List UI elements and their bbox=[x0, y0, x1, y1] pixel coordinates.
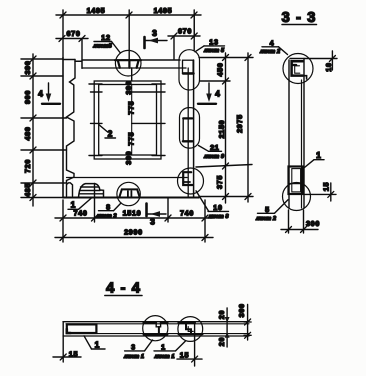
dim text 720 (rotated) bbox=[23, 159, 32, 173]
section 4-4 circle B bbox=[178, 317, 203, 342]
dim text 480 (rotated) bbox=[23, 126, 32, 140]
detail 8 pad with notch bbox=[119, 189, 139, 197]
extension below circle B bbox=[194, 323, 196, 366]
svg-text:300: 300 bbox=[306, 219, 320, 228]
section 3-3 top surface line bbox=[290, 58, 337, 60]
right chain extension lines bbox=[196, 58, 253, 197]
svg-text:3: 3 bbox=[152, 28, 157, 38]
section 3-3 bottom member bbox=[289, 167, 303, 195]
detail in circle A (T-slot) bbox=[144, 322, 168, 324]
opening tick line upper bbox=[132, 91, 165, 93]
svg-text:4: 4 bbox=[215, 89, 220, 99]
right total dim line 2975 bbox=[247, 53, 249, 202]
section mark 4 left bbox=[38, 83, 60, 104]
extension line left top bbox=[62, 10, 64, 58]
extension line right top bbox=[193, 10, 195, 50]
detail circle 8 (bottom middle) bbox=[117, 182, 140, 205]
svg-text:1510: 1510 bbox=[123, 209, 142, 218]
left chain slash ticks bbox=[30, 56, 36, 201]
section 4-4 wall band lines bbox=[63, 321, 249, 323]
section 3-3 wall right double line bbox=[301, 80, 303, 208]
panel bottom edge baseline bbox=[63, 197, 199, 199]
callout 4/лист 2 bbox=[259, 38, 287, 55]
detail oval 21 (middle right) bbox=[180, 108, 200, 149]
opening right edge tick marks bbox=[152, 84, 165, 156]
panel top-left corner block bbox=[63, 60, 82, 69]
svg-text:1: 1 bbox=[316, 150, 321, 160]
left edge bottom bump bbox=[67, 183, 73, 196]
svg-text:3 - 3: 3 - 3 bbox=[281, 9, 316, 26]
left 670 dim line bbox=[56, 38, 88, 40]
right chain slash ticks bbox=[223, 55, 252, 200]
svg-text:лист5: лист5 bbox=[92, 44, 112, 50]
section 3-3 wall left line bbox=[288, 60, 290, 208]
svg-text:300: 300 bbox=[124, 151, 133, 165]
svg-text:740: 740 bbox=[180, 209, 194, 218]
section mark 3 top bbox=[145, 28, 168, 48]
svg-text:300: 300 bbox=[237, 303, 246, 317]
svg-text:375: 375 bbox=[215, 175, 224, 189]
callout 21/лист 9 bbox=[199, 143, 225, 160]
svg-text:300: 300 bbox=[124, 81, 133, 95]
dim text 390 (rotated) bbox=[23, 60, 32, 74]
dim 15 right (section 4-4) bbox=[177, 358, 202, 360]
dim 15 (section 3-3) bbox=[304, 193, 336, 195]
svg-text:лист 2: лист 2 bbox=[259, 49, 281, 55]
detail 10 bracket bbox=[183, 172, 192, 185]
panel right rail inner line bbox=[187, 68, 189, 198]
panel right rail outer line bbox=[193, 60, 195, 198]
svg-text:5: 5 bbox=[265, 205, 270, 214]
dim 15 left (section 4-4) bbox=[62, 336, 64, 362]
section 3-3 bottom detail circle bbox=[283, 183, 311, 211]
svg-text:4 - 4: 4 - 4 bbox=[106, 280, 141, 297]
section 3-3 top detail circle bbox=[283, 54, 313, 84]
svg-text:4: 4 bbox=[38, 89, 43, 99]
dim text 900 (rotated) bbox=[23, 90, 32, 104]
callout 12/лист5 bbox=[92, 33, 120, 53]
callout 1/лист 1 bbox=[154, 341, 186, 360]
section 3-3 top channel detail bbox=[292, 61, 307, 79]
dim text 375 (rotated) bbox=[215, 175, 224, 189]
callout 13/лист 5 bbox=[195, 37, 225, 54]
detail in circle B (corner joint) bbox=[179, 322, 195, 324]
section 4-4 left end bbox=[62, 322, 64, 336]
svg-text:670: 670 bbox=[66, 29, 80, 38]
dim text 2150 (rotated) bbox=[217, 120, 226, 139]
svg-text:2: 2 bbox=[108, 129, 113, 139]
extension line mid top bbox=[128, 10, 130, 60]
svg-text:740: 740 bbox=[73, 209, 87, 218]
svg-text:2975: 2975 bbox=[235, 114, 244, 133]
opening dim 300 top (rotated) bbox=[124, 81, 133, 95]
dim text 485 (rotated) bbox=[23, 183, 32, 197]
svg-text:лист 1: лист 1 bbox=[154, 354, 175, 360]
panel left edge outer line bbox=[62, 58, 64, 198]
svg-text:2150: 2150 bbox=[217, 120, 226, 139]
svg-text:485: 485 bbox=[23, 183, 32, 197]
svg-text:15: 15 bbox=[69, 350, 78, 359]
callout 3/лист 1 bbox=[123, 340, 152, 360]
svg-text:775: 775 bbox=[126, 101, 135, 115]
detail 13 corner insert bbox=[183, 60, 194, 73]
svg-text:390: 390 bbox=[23, 60, 32, 74]
bottom extensions bbox=[63, 184, 205, 243]
svg-text:лист 8: лист 8 bbox=[208, 214, 230, 220]
svg-text:670: 670 bbox=[178, 27, 192, 36]
svg-text:13: 13 bbox=[209, 37, 218, 46]
svg-text:1495: 1495 bbox=[87, 6, 106, 15]
svg-text:20: 20 bbox=[217, 310, 226, 319]
svg-text:900: 900 bbox=[23, 90, 32, 104]
svg-text:1: 1 bbox=[95, 340, 100, 350]
opening tick line lower bbox=[132, 122, 165, 124]
svg-text:450: 450 bbox=[215, 62, 224, 76]
svg-text:лист 5: лист 5 bbox=[203, 48, 225, 54]
opening left edge tick marks bbox=[89, 84, 102, 156]
dim 300 (section 3-3 bottom) bbox=[289, 210, 304, 233]
bottom total dim line 2990 bbox=[55, 237, 213, 239]
opening dim 775 lower (rotated) bbox=[126, 132, 135, 146]
svg-text:15: 15 bbox=[180, 351, 189, 360]
right dim chain line 450/2150/375 bbox=[225, 53, 227, 203]
section 4-4 circle A bbox=[143, 316, 168, 341]
top dim line 1495+1495 bbox=[56, 14, 201, 16]
panel bottom rail inner line bbox=[67, 177, 188, 179]
opening inner rectangle double outline bbox=[94, 81, 161, 159]
opening dim 775 upper (rotated) bbox=[126, 101, 135, 115]
bottom dim line 740/1510/740 bbox=[55, 217, 213, 219]
detail circle 12 (top middle) bbox=[115, 50, 141, 76]
detail 12 anchor shape bbox=[115, 60, 141, 68]
svg-text:12: 12 bbox=[101, 33, 110, 42]
svg-text:2990: 2990 bbox=[124, 228, 143, 237]
svg-text:775: 775 bbox=[126, 132, 135, 146]
left dim chain line bbox=[32, 54, 34, 206]
svg-text:20: 20 bbox=[217, 337, 226, 346]
detail oval 13 (top right corner) bbox=[179, 50, 200, 90]
dim text 2975 (rotated) bbox=[235, 114, 244, 133]
section mark 3 bottom bbox=[147, 204, 167, 227]
detail circle 10 (bottom right) bbox=[178, 168, 204, 194]
panel left edge rib profile with bumps bbox=[67, 60, 76, 184]
label 1 (plan) leader bbox=[79, 198, 93, 210]
dim text 450 (rotated) bbox=[215, 62, 224, 76]
svg-text:3: 3 bbox=[131, 342, 136, 351]
callout 10/лист 8 bbox=[196, 191, 229, 220]
section mark 4 right bbox=[198, 83, 220, 104]
detail 21 insert bbox=[182, 118, 184, 141]
svg-text:лист 3: лист 3 bbox=[96, 213, 118, 219]
svg-text:лист 9: лист 9 bbox=[203, 154, 225, 160]
svg-text:лист 1: лист 1 bbox=[123, 354, 144, 360]
left chain extension lines bbox=[21, 59, 67, 198]
dim 20/20 line (section 4-4) bbox=[226, 308, 228, 347]
svg-text:1495: 1495 bbox=[154, 6, 173, 15]
svg-text:480: 480 bbox=[23, 126, 32, 140]
panel top edge outer line bbox=[82, 59, 180, 61]
callout 8/лист 3 bbox=[96, 203, 121, 220]
dome stripes bbox=[79, 187, 103, 194]
dim 10 (section 3-3 top) bbox=[331, 51, 333, 70]
svg-text:10: 10 bbox=[324, 62, 333, 71]
label 2 leader bbox=[99, 125, 107, 132]
opening dim 300 bottom (rotated) bbox=[124, 151, 133, 165]
svg-text:1: 1 bbox=[161, 342, 166, 351]
opening centre line bbox=[131, 85, 133, 156]
callout 5/лист 2 bbox=[255, 200, 288, 222]
svg-text:720: 720 bbox=[23, 159, 32, 173]
bottom-left dome feature bbox=[79, 184, 104, 198]
right 670 dim line bbox=[168, 35, 200, 37]
svg-text:15: 15 bbox=[321, 182, 330, 191]
svg-text:лист 2: лист 2 bbox=[255, 216, 277, 222]
panel top edge inner line bbox=[82, 67, 186, 69]
svg-text:10: 10 bbox=[213, 203, 222, 212]
section 4-4 left channel detail bbox=[67, 324, 97, 333]
svg-text:4: 4 bbox=[270, 38, 275, 47]
dim 300 line (section 4-4) bbox=[247, 305, 249, 341]
